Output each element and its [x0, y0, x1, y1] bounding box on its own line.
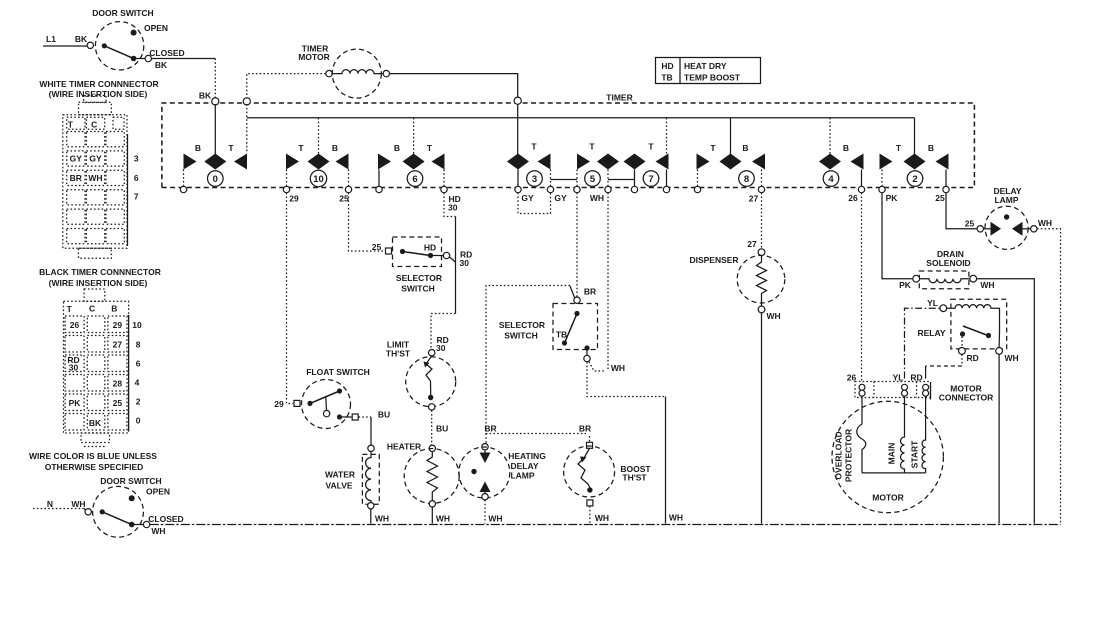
cam switch 8	[694, 118, 765, 204]
svg-text:TEMP BOOST: TEMP BOOST	[684, 73, 741, 83]
svg-text:MAIN: MAIN	[887, 443, 897, 465]
motor	[832, 401, 943, 512]
svg-text:T: T	[896, 143, 902, 153]
white connector header pins T C	[67, 117, 124, 129]
svg-text:0: 0	[136, 416, 141, 426]
cam switch 10	[283, 118, 351, 204]
svg-text:29: 29	[289, 194, 299, 204]
svg-text:WH: WH	[88, 173, 102, 183]
switch arm (closed)	[104, 46, 133, 59]
svg-text:WHITE TIMER CONNNECTOR: WHITE TIMER CONNNECTOR	[39, 79, 158, 89]
svg-text:B: B	[843, 143, 849, 153]
svg-text:27: 27	[113, 340, 123, 350]
svg-text:N: N	[47, 499, 53, 509]
svg-text:T: T	[228, 143, 234, 153]
svg-text:WH: WH	[669, 513, 683, 523]
svg-text:WIRE COLOR IS BLUE UNLESS: WIRE COLOR IS BLUE UNLESS	[29, 451, 157, 461]
closed contact	[131, 56, 137, 62]
terminal	[87, 42, 93, 48]
svg-text:START: START	[910, 440, 920, 469]
svg-text:MOTOR: MOTOR	[872, 493, 903, 503]
selector switch (HD)	[386, 237, 473, 294]
svg-text:WH: WH	[767, 311, 781, 321]
svg-text:6: 6	[136, 359, 141, 369]
open contact	[131, 30, 137, 36]
svg-text:B: B	[928, 143, 934, 153]
svg-text:BU: BU	[436, 424, 448, 434]
selector switch (TB)	[499, 297, 598, 362]
svg-text:6: 6	[412, 174, 417, 185]
white connector grid cells	[67, 132, 125, 244]
svg-text:TB: TB	[661, 73, 672, 83]
relay	[917, 299, 1018, 363]
svg-text:T: T	[710, 143, 716, 153]
svg-text:29: 29	[113, 320, 123, 330]
wire BR branch to lamps	[570, 286, 575, 298]
wire BR: timer to selector switch TB	[576, 193, 578, 297]
svg-text:GY: GY	[89, 154, 102, 164]
svg-text:BR: BR	[584, 287, 596, 297]
svg-text:B: B	[332, 143, 338, 153]
cam switch 0	[180, 104, 247, 193]
legend box HD/TB	[656, 58, 761, 84]
svg-text:YL: YL	[927, 298, 938, 308]
timer feed bus	[247, 117, 915, 119]
svg-text:CLOSED: CLOSED	[149, 48, 184, 58]
delay lamp	[946, 186, 1052, 249]
svg-text:T: T	[298, 143, 304, 153]
svg-text:LAMP: LAMP	[994, 195, 1018, 205]
wire selector TB output down and right to neutral	[587, 362, 666, 397]
svg-text:BK: BK	[155, 60, 168, 70]
motor start winding	[910, 396, 926, 473]
svg-text:10: 10	[313, 174, 324, 185]
svg-text:L1: L1	[46, 34, 56, 44]
svg-text:RELAY: RELAY	[917, 328, 945, 338]
svg-text:BK: BK	[199, 91, 212, 101]
wire HD 30: timer to limit thermostat	[444, 193, 456, 217]
svg-text:(WIRE INSERTION SIDE): (WIRE INSERTION SIDE)	[49, 278, 148, 288]
svg-text:SWITCH: SWITCH	[401, 284, 435, 294]
svg-text:27: 27	[749, 194, 759, 204]
svg-text:B: B	[394, 143, 400, 153]
svg-text:30: 30	[460, 258, 470, 268]
svg-text:25: 25	[935, 193, 945, 203]
terminal	[143, 521, 149, 527]
svg-text:DOOR SWITCH: DOOR SWITCH	[92, 8, 153, 18]
svg-text:26: 26	[848, 193, 858, 203]
svg-text:25: 25	[339, 194, 349, 204]
svg-text:T: T	[648, 142, 654, 152]
black connector header T C B	[67, 304, 118, 315]
svg-text:CLOSED: CLOSED	[148, 514, 183, 524]
svg-text:BK: BK	[75, 34, 88, 44]
cam switch 7	[608, 118, 670, 193]
svg-text:WH: WH	[436, 514, 450, 524]
svg-text:WH: WH	[595, 513, 609, 523]
svg-text:DOOR SWITCH: DOOR SWITCH	[100, 476, 161, 486]
svg-text:3: 3	[134, 154, 139, 164]
svg-text:PK: PK	[69, 398, 82, 408]
svg-text:WH: WH	[980, 280, 994, 290]
svg-text:2: 2	[136, 397, 141, 407]
svg-text:TIMER: TIMER	[606, 93, 632, 103]
svg-text:WH: WH	[71, 499, 85, 509]
svg-text:VALVE: VALVE	[325, 481, 352, 491]
svg-text:MOTOR: MOTOR	[298, 52, 329, 62]
white timer connector title	[39, 79, 158, 99]
heater	[387, 442, 459, 524]
wire N to door switch	[33, 508, 84, 510]
svg-text:RD: RD	[967, 353, 979, 363]
contact	[102, 43, 107, 48]
overload protector	[834, 396, 866, 482]
terminal	[85, 509, 91, 515]
svg-text:T: T	[531, 142, 537, 152]
svg-text:BLACK TIMER CONNNECTOR: BLACK TIMER CONNNECTOR	[39, 267, 161, 277]
svg-text:FLOAT SWITCH: FLOAT SWITCH	[306, 367, 370, 377]
cam switch 6	[376, 118, 461, 213]
svg-text:27: 27	[747, 239, 757, 249]
svg-text:TH'ST: TH'ST	[622, 473, 647, 483]
svg-text:BR: BR	[579, 424, 591, 434]
boost thermostat	[564, 424, 652, 524]
svg-text:DISPENSER: DISPENSER	[689, 255, 738, 265]
svg-text:(WIRE INSERTION SIDE): (WIRE INSERTION SIDE)	[49, 89, 148, 99]
wire drain solenoid to neutral	[977, 279, 1035, 524]
wire 26: timer to motor connector	[861, 193, 863, 382]
svg-text:HD: HD	[661, 61, 673, 71]
svg-text:HEAT DRY: HEAT DRY	[684, 61, 727, 71]
svg-text:GY: GY	[554, 193, 567, 203]
svg-text:OVERLOAD: OVERLOAD	[834, 431, 844, 479]
contact	[100, 509, 105, 514]
svg-text:BU: BU	[378, 410, 390, 420]
wire delay lamp to neutral	[1037, 229, 1061, 524]
svg-text:WH: WH	[611, 363, 625, 373]
svg-text:8: 8	[136, 340, 141, 350]
wire limit thermostat to heater	[431, 410, 433, 445]
black timer connector body	[64, 289, 129, 447]
svg-text:WH: WH	[1005, 353, 1019, 363]
svg-text:T: T	[68, 120, 74, 130]
svg-text:4: 4	[828, 174, 834, 185]
bottom WH neutral bus	[150, 524, 1061, 526]
black timer connector title	[39, 267, 161, 288]
wire 29: timer to float switch	[287, 193, 294, 404]
svg-text:TH'ST: TH'ST	[386, 349, 411, 359]
timer box	[162, 90, 975, 188]
svg-text:C: C	[91, 120, 97, 130]
svg-text:T: T	[427, 143, 433, 153]
white timer connector body	[63, 96, 128, 259]
cam switch 3	[507, 104, 567, 203]
wire RD: relay to motor connector	[961, 354, 963, 366]
svg-text:GY: GY	[521, 193, 534, 203]
door switch S1 (top, L1 side)	[46, 8, 185, 70]
svg-text:0: 0	[213, 174, 218, 185]
float switch	[274, 367, 370, 429]
svg-text:7: 7	[648, 174, 653, 185]
svg-text:7: 7	[134, 192, 139, 202]
svg-text:B: B	[195, 143, 201, 153]
svg-text:GY: GY	[70, 154, 83, 164]
svg-text:SELECTOR: SELECTOR	[499, 320, 545, 330]
svg-text:OPEN: OPEN	[146, 487, 170, 497]
svg-text:WATER: WATER	[325, 470, 355, 480]
svg-text:T: T	[67, 304, 73, 314]
svg-text:T: T	[589, 142, 595, 152]
svg-text:OTHERWISE SPECIFIED: OTHERWISE SPECIFIED	[45, 462, 144, 472]
timer motor	[298, 44, 389, 99]
svg-text:B: B	[742, 143, 748, 153]
svg-text:25: 25	[113, 398, 123, 408]
svg-text:4: 4	[135, 378, 140, 388]
cam switch 4	[819, 118, 865, 203]
svg-text:5: 5	[590, 174, 596, 185]
svg-text:SELECTOR: SELECTOR	[396, 273, 442, 283]
svg-text:DELAY: DELAY	[510, 461, 538, 471]
svg-text:PK: PK	[899, 280, 912, 290]
terminal	[145, 55, 151, 61]
svg-text:HD: HD	[424, 243, 436, 253]
door switch S2 (bottom, N side)	[47, 476, 184, 537]
svg-text:WH: WH	[151, 526, 165, 536]
svg-text:C: C	[89, 304, 95, 314]
svg-text:6: 6	[134, 173, 139, 183]
dispenser	[689, 193, 784, 524]
node on timer top edge (switch 3 feed)	[514, 97, 521, 104]
node on timer top edge (motor feed)	[243, 98, 250, 105]
svg-text:29: 29	[274, 399, 284, 409]
svg-text:CONNECTOR: CONNECTOR	[939, 393, 994, 403]
wire PK: timer to drain solenoid	[882, 193, 913, 279]
wire 25: timer to selector switch	[349, 193, 386, 251]
svg-text:WH: WH	[375, 514, 389, 524]
cam switch 5	[551, 142, 620, 204]
svg-text:SOLENOID: SOLENOID	[926, 258, 970, 268]
wire relay WH to neutral	[998, 354, 1000, 523]
node BK on timer top edge	[212, 98, 219, 105]
wire BU float switch to water valve	[359, 416, 372, 418]
drain solenoid	[899, 249, 994, 290]
svg-text:30: 30	[69, 363, 79, 373]
black connector grid cells	[65, 316, 127, 430]
water valve	[325, 445, 389, 523]
wire timer motor left (dotted) to node	[247, 74, 326, 98]
wire YL: motor connector to relay coil	[905, 308, 940, 378]
wire BK door switch to timer	[152, 58, 216, 60]
svg-text:WH: WH	[1038, 218, 1052, 228]
svg-text:LAMP: LAMP	[510, 471, 534, 481]
svg-text:28: 28	[113, 379, 123, 389]
heating delay lamp	[459, 424, 546, 524]
svg-text:WH: WH	[590, 193, 604, 203]
wire WH: timer to selector switch output	[607, 193, 609, 371]
wire timer motor right to switch 3	[390, 74, 518, 97]
svg-text:30: 30	[448, 203, 458, 213]
svg-text:25: 25	[965, 219, 975, 229]
wire selector TB output to WH node	[589, 362, 605, 372]
svg-text:TB: TB	[556, 330, 567, 340]
svg-text:8: 8	[744, 174, 749, 185]
svg-text:25: 25	[372, 242, 382, 252]
svg-text:10: 10	[132, 320, 142, 330]
svg-text:PROTECTOR: PROTECTOR	[844, 429, 854, 482]
svg-text:BR: BR	[70, 173, 82, 183]
svg-text:2: 2	[912, 174, 917, 185]
cam switch 2	[879, 118, 949, 203]
svg-text:BK: BK	[89, 418, 102, 428]
switch arm (closed)	[102, 512, 132, 525]
svg-text:PK: PK	[886, 193, 899, 203]
svg-text:HEATER: HEATER	[387, 442, 421, 452]
svg-text:OPEN: OPEN	[144, 23, 168, 33]
svg-text:SWITCH: SWITCH	[504, 331, 538, 341]
svg-text:30: 30	[436, 343, 446, 353]
wire L1 to door switch	[43, 45, 87, 47]
note: wire color	[29, 451, 157, 472]
open contact	[129, 495, 135, 501]
closed contact	[129, 522, 135, 528]
motor winding common bus	[862, 472, 926, 474]
svg-text:B: B	[111, 304, 117, 314]
limit thermostat	[386, 335, 456, 434]
wire GY jumper below timer	[518, 193, 551, 214]
svg-text:BR: BR	[484, 424, 496, 434]
svg-text:WH: WH	[488, 514, 502, 524]
svg-text:26: 26	[70, 320, 80, 330]
motor connector	[847, 373, 994, 403]
motor main winding	[887, 396, 905, 473]
svg-text:3: 3	[532, 174, 537, 185]
svg-text:HEATING: HEATING	[508, 451, 546, 461]
